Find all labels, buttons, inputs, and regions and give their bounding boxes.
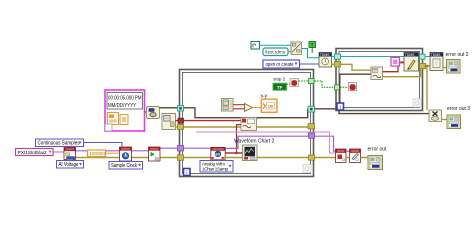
svg-text:100000: 100000 <box>89 151 105 157</box>
wire: queue W1 from node A into loop1 <box>160 108 308 118</box>
wire: task purple Start to Read through tunnel <box>160 147 211 149</box>
svg-text:Waveform Chart 2: Waveform Chart 2 <box>234 138 275 144</box>
iteration terminal i loop 2 <box>337 103 344 111</box>
wire: W2 red node B to Enqueue <box>176 120 242 122</box>
svg-text:Continuous Samples: Continuous Samples <box>38 141 80 147</box>
ring constant open or create <box>263 60 300 68</box>
boolean terminal TF stop 2 <box>273 83 287 90</box>
wire: task purple Create to Timing <box>76 150 121 152</box>
svg-text:TDMS: TDMS <box>405 53 415 57</box>
tunnel olive on loop1 left edge lower <box>178 155 184 161</box>
wire: orange subtract to x-y indicator <box>253 107 262 109</box>
tunnel olive loop1 right edge mid <box>308 124 315 129</box>
svg-text:60: 60 <box>215 151 220 156</box>
ring constant Sample Clock <box>109 162 143 170</box>
while loop 1 border <box>180 70 314 177</box>
tunnel teal loop2 left edge <box>335 54 341 59</box>
wire: red clock to subtract input 2 <box>233 108 245 110</box>
wire: queue branch up into loop2 to Dequeue <box>340 74 371 109</box>
svg-text:1Chan 1Samp: 1Chan 1Samp <box>202 167 228 172</box>
tunnel olive loop1 left edge mid <box>178 124 184 129</box>
wire: task purple Read up and across to Stop VI <box>225 136 336 151</box>
tunnel green loop2 left edge <box>335 85 341 90</box>
tunnel maroon on loop1 left edge <box>178 118 184 123</box>
node B Obtain Queue <box>162 114 176 130</box>
wire: red waveform Read to chart <box>225 148 243 153</box>
wire: olive node B across loop1 <box>176 126 310 128</box>
loop condition terminal loop 2 <box>413 99 421 107</box>
DAQmx Start Task VI <box>149 147 161 161</box>
tunnel teal loop2 right edge <box>420 54 426 59</box>
physical channel constant <box>16 149 54 156</box>
svg-text:TDMS: TDMS <box>320 53 330 57</box>
TDMS Open VI <box>319 53 332 68</box>
wire: error olive Create to Timing <box>76 157 121 159</box>
ring constant AI Voltage <box>57 158 84 168</box>
svg-text:stop 2: stop 2 <box>273 76 286 81</box>
svg-text:Cl: Cl <box>342 158 345 162</box>
wire: pink to TDMS Write <box>400 61 405 63</box>
wire: queue W1 outside loops to merge <box>315 108 340 110</box>
ring constant Continuous Samples <box>36 139 84 147</box>
svg-text:Sample Clock: Sample Clock <box>111 163 137 169</box>
wire: olive tunnel to Dequeue <box>339 64 371 70</box>
tunnel purple loop1 right edge <box>309 133 315 138</box>
tunnel olive loop2 right edge <box>420 63 426 68</box>
svg-text:error out: error out <box>368 147 388 153</box>
wire: task purple Timing to Start <box>132 150 150 152</box>
wire: green T down to TDMS Open <box>311 48 313 54</box>
wire: teal Build Path to TDMS Open <box>302 49 320 58</box>
numeric indicator x-y <box>261 99 277 112</box>
while loop 2 border <box>336 49 423 111</box>
ring constant Analog Wfm 1Chan 1Samp <box>200 161 233 173</box>
numeric constant 100000 <box>88 150 106 157</box>
DAQmx Stop Task VI <box>336 149 347 163</box>
stop button terminal icon <box>290 79 299 87</box>
tunnel teal on loop1 left edge <box>178 106 184 112</box>
tunnel olive loop1 right edge low <box>309 155 315 160</box>
svg-text:.00: .00 <box>267 104 274 109</box>
wire: red clock to subtract input 1 <box>233 104 245 106</box>
waveform chart terminal <box>243 145 258 161</box>
wire: rate orange 100000 to Timing <box>106 152 121 154</box>
tunnel olive loop2 left edge <box>335 62 341 67</box>
DAQmx Read VI <box>211 147 225 159</box>
Enqueue Element node <box>241 118 257 131</box>
timestamp constant box <box>105 90 145 131</box>
DAQmx Create Virtual Channel VI <box>64 148 76 162</box>
string node pink <box>391 58 400 67</box>
loop condition terminal loop 1 <box>303 165 311 173</box>
node Get Date Time in loop1 <box>222 99 234 112</box>
Dequeue Element node <box>371 67 383 80</box>
error out 2 cluster <box>447 60 461 74</box>
wire: green dashed stop across to loop2 <box>299 80 312 82</box>
svg-text:error out 3: error out 3 <box>447 106 470 112</box>
svg-text:MM/DD/YYYY: MM/DD/YYYY <box>108 103 136 109</box>
Build Path function <box>291 42 302 55</box>
wire: olive merge to error out 3 <box>442 119 448 121</box>
TDMS Write VI <box>404 53 419 72</box>
wire: teal path constant to Build Path <box>288 51 291 53</box>
svg-text:error out 2: error out 2 <box>446 52 469 58</box>
wire: olive TDMS Close to error out 2 <box>443 67 447 69</box>
error out 3 cluster <box>447 115 461 129</box>
tunnel green loop1 right edge <box>309 79 315 84</box>
svg-text:PXI1Slot5/ai2: PXI1Slot5/ai2 <box>18 150 47 155</box>
wire: olive Clear to error out <box>361 157 369 159</box>
wire: green stub TF to stop button <box>287 83 291 85</box>
svg-text:TDMS: TDMS <box>431 53 441 57</box>
svg-text:Cl: Cl <box>356 158 359 162</box>
DAQmx Clear Task VI <box>350 149 361 163</box>
wire: olive TDMS Open error into loop2 <box>332 63 335 65</box>
iteration terminal i loop 1 <box>184 169 191 177</box>
svg-text:i: i <box>340 105 341 111</box>
wire: teal path terminal to Build Path <box>260 44 292 46</box>
wire: teal TDMS Open into loop2 and to TDMS Write <box>332 56 405 58</box>
wire: blue ring to TDMS Open <box>300 63 320 65</box>
label stop 2 <box>273 76 286 81</box>
wire: timestamp to node A maroon <box>145 111 148 113</box>
error out cluster <box>368 156 383 170</box>
wire: red waveform branch up to Enqueue <box>237 125 242 153</box>
boolean constant T <box>309 42 316 49</box>
svg-text:i: i <box>186 170 187 176</box>
stop local variable in loop2 <box>349 83 357 91</box>
wire: error olive Timing to Start <box>132 157 150 159</box>
path constant test.tdms <box>263 48 288 56</box>
wire: red Dequeue to TDMS Write <box>383 63 405 72</box>
wire: task purple Stop to Clear <box>346 150 350 152</box>
TDMS Close VI <box>430 53 443 71</box>
tunnel purple on loop1 left edge <box>178 146 184 152</box>
node A To Time Stamp <box>147 107 160 119</box>
wire: error olive Read to Stop chain <box>224 157 337 159</box>
subtract function triangle <box>245 104 253 112</box>
wire: error olive Start to Read through tunnel <box>160 157 211 159</box>
Merge Errors node <box>429 110 442 122</box>
wire: olive out of loop2 branch <box>424 65 430 67</box>
wire: pink string across loop1 to Stop VI <box>196 132 336 153</box>
svg-text:00:00:05.000 PM: 00:00:05.000 PM <box>108 95 142 101</box>
tunnel teal on loop1 right edge <box>308 106 315 112</box>
wire: olive down to merge errors <box>426 66 428 110</box>
svg-text:TF: TF <box>277 85 283 90</box>
DAQmx Timing Sample Clock VI <box>120 147 132 161</box>
svg-text:open or create: open or create <box>266 62 294 68</box>
svg-text:AI Voltage: AI Voltage <box>59 162 79 168</box>
wire: olive Dequeue error to TDMS Write tunnel <box>383 67 421 77</box>
wire: teal to TDMS Close <box>425 56 431 58</box>
wire: physical channel to Create VI (pink) <box>53 151 64 153</box>
wire: error olive Stop to Clear <box>346 157 350 159</box>
svg-text:\test.tdms: \test.tdms <box>265 50 286 55</box>
wire: enum Continuous Samples to Timing VI <box>84 143 123 148</box>
path terminal small <box>251 42 260 50</box>
